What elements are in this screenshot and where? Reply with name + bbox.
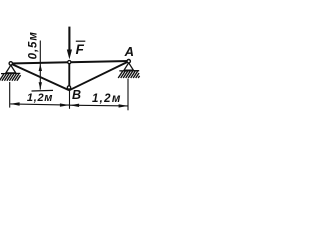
svg-text:1,2м: 1,2м — [92, 93, 122, 105]
left pin support — [0, 62, 21, 81]
right pin support at A — [118, 60, 139, 79]
force F arrow — [67, 27, 72, 60]
svg-text:A: A — [124, 44, 134, 59]
svg-text:F: F — [76, 42, 85, 57]
dimension line left 1,2м — [10, 102, 69, 107]
svg-text:0,5м: 0,5м — [28, 31, 40, 59]
label F with overbar — [76, 41, 86, 57]
extension line at B level for 0,5м — [32, 89, 54, 92]
svg-text:1,2м: 1,2м — [27, 92, 53, 104]
wire left diagonal tie to B — [11, 64, 69, 91]
wire right diagonal tie B to A — [69, 61, 129, 90]
node under force (pin joint circle) — [68, 61, 71, 64]
dimension 0,5м vertical line — [39, 41, 42, 90]
extension line below left support — [9, 82, 11, 108]
node B (pin joint circle) — [67, 86, 70, 89]
wire vertical strut — [68, 62, 70, 88]
wire beam from left support to right support A — [10, 61, 130, 64]
dimension line right 1,2м — [70, 104, 128, 108]
svg-text:B: B — [72, 88, 81, 102]
extension line below B — [69, 90, 71, 109]
extension line below A — [127, 79, 129, 111]
